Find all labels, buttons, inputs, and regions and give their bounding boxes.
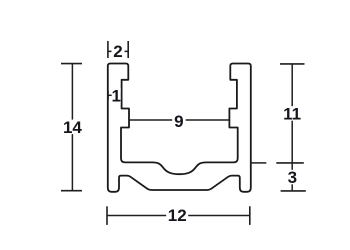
dim 12 left tick bbox=[106, 206, 108, 225]
dim 11+3 line (right) bbox=[291, 64, 293, 191]
dim 11 top bar bbox=[280, 63, 305, 65]
svg-text:9: 9 bbox=[174, 112, 183, 131]
dim 1 right tick bbox=[121, 91, 123, 100]
dim 14 line (left) bbox=[71, 64, 73, 191]
profile outline (extrusion cross-section) bbox=[108, 64, 251, 192]
dim 2 right tick bbox=[127, 41, 129, 58]
svg-text:14: 14 bbox=[63, 118, 82, 137]
svg-text:1: 1 bbox=[111, 86, 120, 105]
dim 2 label bbox=[112, 44, 125, 59]
svg-text:2: 2 bbox=[113, 42, 122, 61]
dim 1 label bbox=[112, 88, 121, 103]
dim 2 line (top) bbox=[108, 50, 128, 52]
extension line from floor bbox=[251, 162, 266, 164]
dim 12 line (bottom) bbox=[107, 215, 250, 217]
dim 3 label bbox=[286, 170, 299, 185]
dim 1 left tick bbox=[107, 91, 109, 100]
dim 12 right tick bbox=[249, 206, 251, 225]
dim 9 label bbox=[172, 112, 186, 128]
dim 11 label bbox=[282, 106, 303, 121]
dim 14 bottom bar bbox=[61, 190, 82, 192]
svg-text:3: 3 bbox=[288, 168, 297, 187]
dim 12 label bbox=[166, 208, 188, 223]
dim 2 left tick bbox=[107, 41, 109, 58]
svg-text:11: 11 bbox=[283, 105, 301, 124]
svg-text:12: 12 bbox=[168, 206, 187, 225]
dim 14 label bbox=[62, 120, 83, 135]
dim 9 line bbox=[129, 119, 229, 121]
dim 3 bottom bar bbox=[281, 190, 306, 192]
dim 1 line bbox=[108, 94, 122, 96]
dim 11/3 middle bar bbox=[276, 162, 304, 164]
dim 14 top bar bbox=[61, 63, 82, 65]
